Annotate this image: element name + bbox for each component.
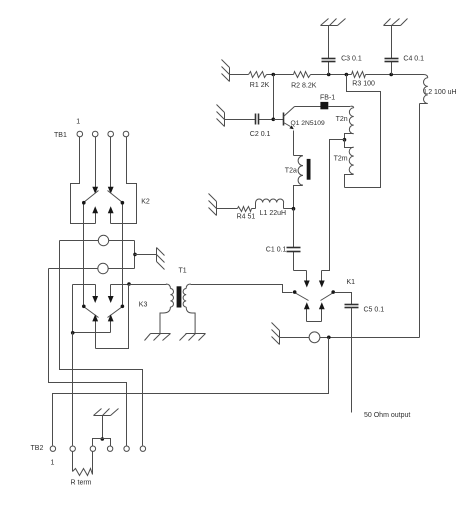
wire (K2 left pivot to K3): [83, 205, 85, 305]
relay K3 contact (left, down): [95, 285, 97, 297]
winding T2n: [329, 106, 351, 108]
svg-text:R2 8.2K: R2 8.2K: [291, 83, 317, 90]
core (T2a): [307, 159, 311, 180]
relay K3 pivot (left): [82, 305, 86, 309]
wire (Q1 collector): [295, 106, 322, 108]
wire (to TB2-6): [60, 241, 143, 446]
svg-text:C2 0.1: C2 0.1: [250, 131, 271, 138]
transformer T1 secondary: [186, 284, 191, 289]
svg-text:T2m: T2m: [334, 156, 348, 163]
node (output rail junction): [327, 336, 331, 340]
svg-text:FB-1: FB-1: [320, 95, 335, 102]
relay K2 contact (left, up): [95, 213, 97, 224]
ground (T1 secondary): [186, 333, 206, 335]
wire (K3 top right): [111, 284, 129, 286]
svg-text:1: 1: [51, 460, 55, 467]
capacitor C5: [345, 304, 359, 306]
svg-text:L2 100 uH: L2 100 uH: [424, 89, 456, 96]
feedthrough (lower): [49, 268, 98, 270]
svg-text:C1 0.1: C1 0.1: [266, 247, 287, 254]
svg-text:C3 0.1: C3 0.1: [341, 56, 362, 63]
wire (K1 common loop): [307, 321, 322, 323]
relay K2 blade (right): [108, 191, 123, 203]
resistor R2: [294, 72, 311, 78]
inductor L2 100uH: [423, 75, 427, 78]
node: [133, 253, 137, 257]
relay K1 pivot (right): [331, 290, 335, 294]
relay K1 blade (left): [295, 293, 309, 301]
svg-text:1: 1: [76, 119, 80, 126]
relay K3 blade (left): [84, 307, 99, 318]
wire: [366, 74, 424, 76]
wire (K3 right loop): [96, 285, 129, 349]
resistor R1: [249, 72, 267, 78]
wire (TB1-1 to K2): [71, 137, 96, 224]
relay K3 contact (right, up): [110, 321, 112, 333]
wire: [134, 241, 136, 269]
svg-text:K3: K3: [139, 302, 148, 309]
wire (right edge): [419, 104, 421, 338]
wire (K3 top left): [73, 284, 96, 286]
wire (TB1-4 to K2): [111, 137, 137, 224]
relay K1 contact (right, down): [321, 271, 323, 282]
resistor R3: [352, 72, 366, 78]
node (TB2 3-4 tie): [101, 437, 105, 441]
relay K1 blade (right): [321, 293, 334, 301]
transistor Q1 2N5109: [283, 113, 285, 126]
ground (left of C2): [224, 113, 226, 127]
svg-text:Q1 2N5109: Q1 2N5109: [291, 120, 325, 127]
capacitor C3: [328, 26, 330, 59]
svg-text:T2n: T2n: [336, 116, 348, 123]
node (T2 feed junction): [345, 73, 349, 77]
svg-text:K2: K2: [141, 199, 150, 206]
wire (ground stem): [102, 416, 104, 439]
terminal block TB2: [50, 446, 55, 451]
node (C4 junction): [389, 73, 393, 77]
wire: [274, 119, 284, 121]
wire: [217, 208, 238, 210]
node (T2n/T2m junction): [343, 138, 347, 142]
node (L1/C1 junction): [292, 207, 296, 211]
wire (T2m bottom to rail feed): [345, 75, 381, 188]
winding T2m: [345, 140, 354, 148]
capacitor C2: [225, 119, 256, 121]
node (K3 branch): [71, 331, 75, 335]
relay K1 pivot (left): [293, 290, 297, 294]
ground (left of R1): [229, 68, 231, 82]
svg-text:T2a: T2a: [285, 168, 297, 175]
relay K1 contact (right, up): [321, 309, 323, 322]
wire: [252, 208, 256, 210]
svg-text:TB2: TB2: [31, 445, 44, 452]
wire: [335, 293, 352, 305]
wire (K3 left loop): [73, 285, 111, 333]
node (K3/T1 junction): [127, 282, 131, 286]
relay K2 pivot (right): [121, 201, 125, 205]
ground (above C3): [321, 25, 338, 27]
ground (left of R4): [216, 202, 218, 216]
relay K3 blade (right): [108, 307, 123, 318]
relay K1 contact (left, down): [306, 271, 308, 282]
wire: [135, 254, 157, 256]
relay K2 contact (left, down): [95, 137, 97, 188]
wire: [294, 270, 307, 272]
feedthrough (upper): [60, 240, 99, 242]
resistor R term: [72, 452, 74, 472]
relay K2 pivot (left): [82, 201, 86, 205]
wire (rail to TB2-1): [53, 338, 329, 446]
svg-text:TB1: TB1: [54, 132, 67, 139]
node (R1/R2 junction): [272, 73, 276, 77]
node (Q1 base junction): [272, 118, 276, 122]
wire: [230, 74, 249, 76]
winding T2a: [294, 155, 303, 157]
ground (above C4): [384, 25, 401, 27]
svg-text:R1 2K: R1 2K: [250, 82, 270, 89]
relay K1 contact (left, up): [306, 309, 308, 322]
wire: [311, 74, 352, 76]
transformer T1 primary: [166, 284, 171, 289]
wire (to TB2-5): [49, 269, 127, 446]
terminal block TB1: [77, 131, 83, 137]
svg-text:R term: R term: [71, 480, 92, 487]
relay K3 pivot (right): [121, 305, 125, 309]
svg-text:R3 100: R3 100: [352, 81, 375, 88]
relay K2 contact (right, down): [110, 137, 112, 188]
relay K2 blade (left): [84, 191, 99, 203]
svg-text:C4 0.1: C4 0.1: [403, 56, 424, 63]
node (C3 junction): [327, 73, 331, 77]
wire (K2 right pivot to K3): [122, 205, 124, 305]
core (T1): [177, 286, 182, 307]
ground (above TB2): [94, 415, 111, 417]
wire (T1 secondary to K1): [191, 285, 293, 293]
relay K2 contact (right, up): [110, 213, 112, 224]
relay K3 contact (right, down): [110, 285, 112, 297]
wire: [320, 337, 420, 339]
svg-text:L1 22uH: L1 22uH: [260, 210, 286, 217]
svg-text:R4 51: R4 51: [237, 214, 256, 221]
inductor L1 22uH: [255, 203, 257, 209]
capacitor C4: [391, 26, 393, 59]
wire (T2 tap to K1): [322, 140, 345, 271]
wire: [267, 74, 294, 76]
svg-text:T1: T1: [179, 268, 187, 275]
svg-text:50 Ohm output: 50 Ohm output: [364, 412, 410, 419]
svg-text:C5 0.1: C5 0.1: [364, 307, 385, 314]
wire (Q1 emitter): [293, 131, 295, 156]
resistor R4: [238, 207, 252, 212]
wire (K3 to TB2-2): [72, 333, 74, 446]
wire: [273, 75, 275, 120]
wire (50 Ohm output lead): [351, 308, 353, 413]
svg-text:K1: K1: [347, 279, 356, 286]
ground (left of output jack): [279, 331, 281, 345]
wire: [280, 337, 310, 339]
ferrite bead FB-1: [320, 102, 328, 109]
capacitor C1: [293, 209, 295, 248]
connector (output jack): [309, 332, 320, 343]
ground (T1 primary): [151, 333, 171, 335]
wire: [129, 284, 167, 286]
wire (TB2 3-4 strap): [93, 439, 111, 447]
relay K3 contact (left, up): [95, 321, 97, 349]
ground (feedthrough): [156, 248, 158, 262]
